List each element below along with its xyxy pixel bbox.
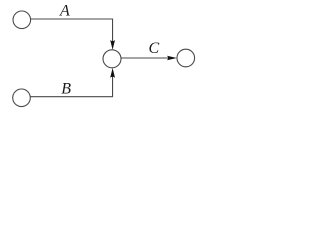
svg-text:B: B: [61, 81, 71, 98]
arrowhead B (up): [110, 68, 115, 78]
node 3 (middle circle): [103, 50, 121, 68]
node 4 (right circle): [177, 49, 195, 67]
wire A: horizontal then down into node 3: [31, 19, 113, 42]
node 2 (bottom-left circle): [13, 89, 31, 107]
svg-text:C: C: [149, 40, 160, 57]
arrowhead A (down): [110, 40, 115, 50]
arrowhead C (right): [167, 56, 177, 61]
node 1 (top-left circle): [13, 11, 31, 29]
wire B: horizontal then up into node 3: [31, 77, 113, 97]
wire C: horizontal into node 4: [121, 57, 168, 59]
svg-text:A: A: [59, 3, 70, 20]
